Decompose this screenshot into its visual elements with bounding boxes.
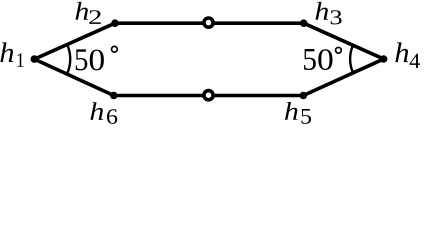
wire: edge h3-h4 — [304, 23, 384, 59]
label h5 glyph h — [285, 102, 298, 120]
node h6 (dot) — [110, 92, 118, 100]
node h3 (dot) — [300, 19, 308, 27]
label h2 glyph h — [76, 2, 89, 20]
label h6 subscript 6 — [107, 109, 117, 124]
open node on top edge — [204, 18, 213, 27]
label h4 subscript 4 — [410, 54, 420, 68]
wire: edge h1-h2 — [34, 23, 115, 59]
label h2 subscript 2 — [89, 10, 101, 24]
wire: edge h6-h5 (bottom) — [114, 94, 303, 98]
angle arc at h4 — [350, 45, 353, 73]
label h1 subscript 1 — [17, 53, 23, 67]
open node on bottom edge — [204, 91, 213, 100]
label h6 glyph h — [91, 102, 104, 120]
wire: edge h5-h4 — [303, 59, 383, 96]
wire: edge h2-h3 (top) — [115, 21, 304, 25]
angle arc at h1 — [67, 45, 70, 75]
label h5 subscript 5 — [302, 109, 312, 124]
label h3 glyph h — [316, 2, 329, 20]
degree symbol left — [112, 46, 118, 52]
node h4 (dot) — [380, 55, 388, 63]
label h1 glyph h — [0, 42, 13, 62]
node h5 (dot) — [300, 92, 308, 100]
left angle digit 5 — [76, 49, 88, 70]
label h3 subscript 3 — [331, 10, 342, 24]
node h1 (dot) — [31, 55, 39, 63]
right angle digit 5 — [304, 49, 316, 70]
node h2 (dot) — [111, 19, 119, 27]
label h4 glyph h — [395, 42, 408, 62]
degree symbol right — [336, 47, 342, 53]
right angle digit 0 — [318, 49, 332, 70]
left angle digit 0 — [90, 50, 104, 71]
wire: edge h1-h6 — [34, 59, 113, 95]
